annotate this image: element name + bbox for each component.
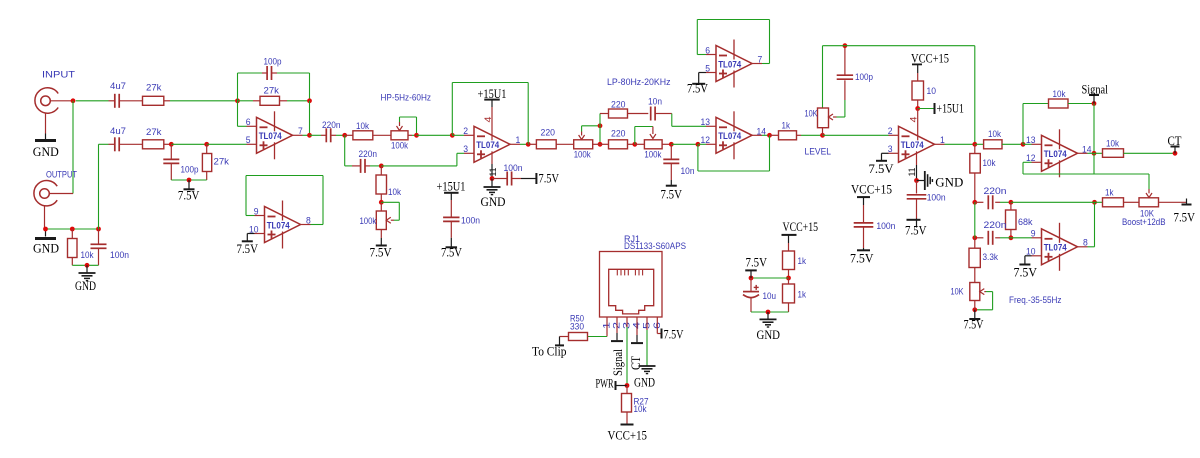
capacitor C3 100p feedback [237, 73, 239, 101]
pin 14 output [752, 134, 762, 136]
svg-text:GND: GND [33, 144, 59, 159]
svg-text:10k: 10k [81, 250, 94, 261]
power VCC+15 under R27 [621, 424, 634, 426]
svg-text:10k: 10k [1053, 89, 1066, 100]
wire BNC2 to bottom node [44, 206, 46, 229]
svg-text:Signal: Signal [611, 349, 625, 376]
junction feedback right [307, 98, 312, 103]
svg-text:7.5V: 7.5V [664, 327, 684, 342]
junction 68k top [1009, 200, 1014, 205]
svg-text:27k: 27k [214, 157, 230, 168]
wire ground rail [72, 264, 98, 266]
svg-text:4u7: 4u7 [110, 126, 126, 137]
capacitor C8 100n decouple2 [450, 200, 452, 217]
op-amp U1G TL074 [1042, 135, 1078, 171]
svg-text:100p: 100p [264, 57, 282, 68]
power 7.5V under C10 [670, 180, 672, 185]
potentiometer RV7 10K freq [970, 283, 980, 301]
svg-text:VCC+15: VCC+15 [851, 182, 892, 197]
svg-text:TL074: TL074 [1044, 149, 1067, 159]
op-amp U1C TL074 [474, 126, 510, 162]
pin 13 [706, 125, 716, 127]
svg-text:INPUT: INPUT [42, 70, 75, 81]
junction boost node [1092, 200, 1097, 205]
svg-text:220: 220 [541, 128, 556, 139]
junction U1F out node [972, 142, 977, 147]
port To Clip [559, 337, 561, 346]
pin 8 output [301, 224, 311, 226]
resistor R20 3.3k [974, 238, 976, 248]
svg-text:100n: 100n [876, 221, 895, 232]
power 7.5V right of RV6 [1159, 201, 1187, 203]
wire 220n left riser [974, 202, 976, 238]
pin 9 U1H [1032, 237, 1042, 239]
svg-text:+15U1: +15U1 [937, 101, 965, 116]
wire to U1C pin2 [417, 134, 453, 136]
RJ1 contacts [616, 269, 618, 275]
svg-text:1: 1 [940, 135, 945, 146]
junction pin12 node [696, 142, 701, 147]
resistor R14 10k series [975, 143, 984, 145]
svg-text:10k: 10k [1106, 139, 1119, 150]
pin 11 power [491, 151, 493, 164]
junction pin11 U1F [914, 178, 919, 183]
svg-text:+15U1: +15U1 [437, 179, 466, 194]
pin 5 [247, 143, 257, 145]
pin 4 wire to gnd bar [636, 317, 638, 335]
svg-text:VCC+15: VCC+15 [608, 428, 648, 443]
wire shunt bottom [171, 179, 206, 181]
svg-text:DS1133-S60APS: DS1133-S60APS [624, 241, 686, 252]
svg-text:CT: CT [1168, 133, 1182, 148]
svg-text:VCC+15: VCC+15 [911, 51, 949, 66]
svg-text:4: 4 [909, 117, 919, 123]
pin 9 [255, 215, 265, 217]
svg-text:68k: 68k [1018, 217, 1033, 228]
junction 100p top [843, 43, 848, 48]
port Signal [1093, 96, 1095, 104]
ground GND under divider [767, 312, 769, 319]
svg-text:LEVEL: LEVEL [805, 147, 832, 158]
resistor R18 1k boost [1095, 201, 1103, 203]
junction LP main a [598, 142, 603, 147]
svg-text:10n: 10n [648, 97, 662, 108]
svg-text:100n: 100n [110, 250, 129, 261]
junction HP input [342, 133, 347, 138]
svg-text:1k: 1k [1105, 188, 1114, 199]
svg-text:100k: 100k [644, 150, 661, 161]
svg-text:6: 6 [246, 117, 251, 128]
junction U1C out [526, 142, 531, 147]
svg-text:TL074: TL074 [718, 131, 741, 141]
capacitor C14 10u electrolytic [750, 278, 752, 292]
svg-text:5: 5 [246, 135, 251, 146]
junction LEVEL node [820, 133, 825, 138]
resistor R8 220 top [600, 113, 609, 115]
svg-text:330: 330 [570, 321, 584, 332]
svg-text:TL074: TL074 [267, 220, 290, 230]
ground GND under OUTPUT [45, 229, 47, 237]
svg-text:7.5V: 7.5V [539, 171, 560, 186]
svg-text:10: 10 [927, 86, 937, 97]
resistor R2 27k feedback [238, 100, 254, 102]
power 7.5V under RV2 [380, 230, 382, 239]
svg-text:TL074: TL074 [901, 140, 924, 150]
connector J1 INPUT BNC [35, 88, 58, 113]
potentiometer RV2 100k HP shunt [380, 202, 382, 211]
potentiometer RV1 100k HP [391, 131, 408, 140]
svg-text:11: 11 [907, 168, 917, 177]
power 7.5V under C13 [863, 248, 865, 250]
pin 5 wire to GND [646, 317, 648, 330]
connector J2 OUTPUT BNC [34, 181, 57, 206]
wire output net up to row2 [98, 144, 100, 229]
junction node A [235, 98, 240, 103]
pin 1 output U1F [935, 143, 945, 145]
wire divider bottom [751, 311, 789, 313]
ground GND earth bottom-left [86, 265, 88, 272]
svg-text:2: 2 [463, 126, 468, 137]
capacitor C6 220n HP shunt [344, 135, 346, 166]
junction LP out [669, 142, 674, 147]
svg-text:7.5V: 7.5V [441, 245, 462, 260]
wire LP riser [599, 114, 601, 145]
junction U1G out [1092, 151, 1097, 156]
svg-text:1k: 1k [798, 290, 807, 301]
pin 12 U1G [1032, 161, 1042, 163]
pin 13 U1G [1032, 143, 1042, 145]
capacitor C10 10n shunt [670, 144, 672, 159]
svg-text:7.5V: 7.5V [746, 255, 768, 270]
svg-text:10k: 10k [634, 404, 647, 415]
connector RJ1 body [600, 252, 663, 318]
wire row1 to U1A [170, 100, 238, 102]
svg-text:7.5V: 7.5V [850, 251, 874, 266]
svg-text:100k: 100k [391, 141, 408, 152]
svg-text:4: 4 [483, 117, 493, 123]
svg-text:CT: CT [629, 356, 643, 370]
capacitor C15 220n row1 [975, 201, 984, 203]
svg-text:Freq.-35-55Hz: Freq.-35-55Hz [1009, 295, 1062, 306]
pin 7 output [293, 134, 303, 136]
resistor R6 10k HP shunt [380, 166, 382, 175]
pin 11 power U1F [916, 151, 918, 165]
pin 6 U1E [706, 54, 716, 56]
junction RV7 bottom [972, 307, 977, 312]
ground GND under U1C [491, 179, 493, 187]
resistor 10k to ground [71, 229, 73, 239]
junction HP shunt [379, 164, 384, 169]
junction R11 bottom [915, 106, 920, 111]
junction dots bottom node [43, 227, 48, 232]
potentiometer RV6 10K boost [1139, 198, 1159, 207]
wire node A down to pin6 [237, 101, 239, 127]
power 7.5V at U1E pin5 [699, 72, 706, 74]
wiper RV7 [980, 289, 985, 295]
junction PWR node [625, 383, 630, 388]
pin 2 [464, 134, 474, 136]
svg-text:8: 8 [1083, 238, 1088, 249]
svg-text:7.5V: 7.5V [869, 161, 895, 176]
resistor R1 27k row1 [143, 96, 164, 105]
svg-text:220: 220 [611, 100, 626, 111]
svg-text:27k: 27k [146, 83, 162, 94]
pin 6 [247, 125, 257, 127]
svg-text:7.5V: 7.5V [964, 317, 984, 332]
op-amp U1E TL074 [716, 46, 752, 82]
junction LP main b [632, 142, 637, 147]
wire LEVEL to U1F pin2 [823, 134, 889, 136]
power 7.5V under C8 [450, 238, 452, 247]
capacitor C2 4u7 row2 [99, 143, 109, 145]
capacitor C13 100n decouple3 [863, 205, 865, 223]
resistor R27 10k [626, 386, 628, 394]
junction Signal node [1092, 101, 1097, 106]
pin 1 wire to R50 [606, 317, 608, 337]
junction freq node a [972, 200, 977, 205]
wire input junction down to OUTPUT pin [72, 101, 74, 194]
pin 4 power U1F [917, 109, 919, 141]
svg-text:To Clip: To Clip [532, 344, 567, 359]
svg-text:10k: 10k [388, 187, 401, 198]
svg-text:Signal: Signal [1082, 82, 1109, 97]
capacitor C7 100n decouple U1C [492, 178, 507, 180]
svg-text:220n: 220n [984, 186, 1007, 197]
op-amp U1D TL074 [716, 117, 752, 153]
junction RV1 out [414, 133, 419, 138]
svg-text:PWR: PWR [596, 376, 614, 391]
wire feedback to output [309, 101, 311, 136]
svg-text:3: 3 [463, 144, 468, 155]
svg-text:10u: 10u [763, 291, 777, 302]
resistor R5 10k HP [345, 134, 353, 136]
wire U1B feedback loop [245, 176, 247, 216]
pin 1 output [510, 143, 520, 145]
resistor R15 10k shunt [974, 144, 976, 153]
resistor R16 10k feedback [1022, 104, 1024, 145]
svg-text:7.5V: 7.5V [661, 187, 683, 202]
svg-text:LP-80Hz-20KHz: LP-80Hz-20KHz [607, 77, 671, 88]
svg-text:GND: GND [33, 241, 59, 256]
resistor R3 27k row2 [143, 140, 164, 149]
op-amp U1A TL074 [257, 117, 293, 153]
junction node input [71, 98, 76, 103]
svg-text:7.5V: 7.5V [178, 188, 200, 203]
wire pin12 loop [1023, 161, 1032, 163]
svg-text:100k: 100k [574, 150, 591, 161]
junction pin11 [490, 176, 495, 181]
svg-text:10n: 10n [681, 166, 695, 177]
svg-text:27k: 27k [146, 127, 162, 138]
pin 6 wire to 7.5V [656, 317, 658, 334]
junction row2 a [169, 142, 174, 147]
op-amp U1F TL074 [899, 126, 935, 162]
svg-text:9: 9 [1031, 229, 1036, 240]
wire Signal to out14 [1093, 104, 1095, 154]
power 7.5V under C12 [916, 219, 918, 228]
svg-text:TL074: TL074 [718, 59, 741, 69]
wire LP jog to wiper RV4 [634, 127, 636, 145]
svg-text:7.5V: 7.5V [370, 245, 393, 260]
svg-text:GND: GND [634, 375, 655, 390]
resistor R9 220 main [600, 143, 609, 145]
svg-text:7.5V: 7.5V [905, 223, 927, 238]
svg-text:220n: 220n [359, 149, 378, 160]
wire HP shunt to pin3 [381, 165, 457, 167]
svg-text:10K: 10K [805, 109, 819, 120]
wire row2 to pin9 [1011, 237, 1032, 239]
capacitor C5 220n series [310, 134, 322, 136]
junction divider mid [786, 276, 791, 281]
svg-text:220n: 220n [322, 120, 341, 131]
svg-text:10K: 10K [951, 287, 965, 298]
svg-text:100n: 100n [927, 193, 946, 204]
svg-text:7.5V: 7.5V [1014, 265, 1038, 280]
wire U1D feedback loop [697, 144, 699, 171]
svg-text:GND: GND [75, 278, 96, 293]
svg-text:100n: 100n [461, 216, 480, 227]
wire out14 down to loop [1093, 153, 1095, 174]
wiper RV3 [581, 132, 583, 136]
svg-text:10k: 10k [356, 121, 369, 132]
power 7.5V right of C7 [521, 178, 536, 180]
pin 5 U1E [706, 72, 716, 74]
junction pin13 node [1021, 142, 1026, 147]
power 7.5V at U1F pin3 [882, 152, 889, 154]
svg-text:Boost+12dB: Boost+12dB [1122, 217, 1166, 228]
svg-text:7: 7 [298, 126, 303, 137]
resistor R7 220 after U1C [528, 143, 536, 145]
resistor R11 10 [917, 73, 919, 81]
svg-text:100p: 100p [181, 165, 199, 176]
svg-text:100k: 100k [360, 216, 377, 227]
svg-text:1: 1 [516, 135, 521, 146]
svg-text:7.5V: 7.5V [237, 241, 259, 256]
resistor R19 68k [1010, 202, 1012, 210]
svg-text:13: 13 [1026, 135, 1036, 146]
power 7.5V at U1H pin10 [1025, 255, 1032, 257]
op-amp U1H TL074 [1042, 229, 1078, 265]
wire U1C feedback loop [527, 83, 529, 145]
svg-text:10k: 10k [983, 158, 996, 169]
svg-text:100n: 100n [504, 163, 523, 174]
junction LP wiper node [598, 123, 603, 128]
svg-text:GND: GND [757, 327, 781, 342]
wire divider to cap [751, 277, 789, 279]
svg-text:TL074: TL074 [476, 140, 499, 150]
pin 10 [255, 233, 265, 235]
capacitor C9 10n top [650, 107, 652, 121]
junction CT node [1173, 151, 1178, 156]
ground GND under pin5 [639, 365, 656, 367]
junction row2 left [972, 235, 977, 240]
svg-text:VCC+15: VCC+15 [783, 219, 819, 234]
svg-text:7: 7 [758, 54, 763, 65]
svg-text:11: 11 [488, 168, 498, 177]
resistor R4 27k shunt [206, 144, 208, 153]
svg-text:1k: 1k [798, 256, 807, 267]
resistor R10 1k [770, 134, 779, 136]
capacitor C12 100n under U1F [916, 181, 918, 194]
wiper RV5 [829, 114, 834, 120]
svg-text:13: 13 [701, 117, 711, 128]
ground GND under INPUT [35, 139, 56, 142]
wiper RV6 [1148, 189, 1150, 193]
wire top feedback line [823, 45, 975, 47]
junction U1A output [307, 133, 312, 138]
power 7.5V at pin10 [247, 233, 254, 235]
ground GND right of U1F [917, 180, 925, 182]
pin 3 U1F [889, 152, 899, 154]
pin 3 [464, 152, 474, 154]
port CT [1174, 147, 1176, 153]
svg-text:27k: 27k [264, 86, 280, 97]
resistor R17 10k to CT [1094, 152, 1103, 154]
svg-text:GND: GND [935, 175, 963, 190]
svg-text:220: 220 [611, 129, 626, 140]
wire bottom node [46, 228, 99, 230]
svg-text:GND: GND [481, 194, 506, 209]
junction row2 b [204, 142, 209, 147]
pin 8 output U1H [1078, 246, 1088, 248]
svg-text:2: 2 [888, 126, 893, 137]
wire input row1 [76, 100, 109, 102]
potentiometer RV4 100k LP2 [635, 143, 645, 145]
svg-text:4u7: 4u7 [110, 81, 126, 92]
wire top to pin13 [671, 114, 673, 127]
svg-text:TL074: TL074 [1044, 243, 1067, 253]
svg-text:7.5V: 7.5V [1174, 210, 1196, 225]
capacitor 100n to ground [98, 229, 100, 244]
pin 7 output U1E [752, 63, 762, 65]
capacitor C1 4u7 row1 [109, 100, 115, 102]
pin 14 output U1G [1078, 152, 1088, 154]
pin 4 power [491, 107, 493, 140]
capacitor C4 100p shunt [170, 144, 172, 159]
wiper RV1 [399, 122, 401, 126]
svg-text:TL074: TL074 [259, 131, 282, 141]
svg-text:1k: 1k [782, 121, 791, 132]
power +15U1 port right [918, 108, 935, 110]
power 7.5V under RV7 [974, 310, 976, 318]
pin 2 wire to gnd bar [616, 317, 618, 333]
junction U1D out [767, 133, 772, 138]
power 7.5V shunt [188, 180, 190, 189]
capacitor C11 100p LEVEL [844, 80, 846, 100]
junction U1C pin2 node [450, 133, 455, 138]
svg-text:3.3k: 3.3k [983, 252, 999, 263]
op-amp U1B TL074 [265, 207, 301, 243]
wire out8 riser [1094, 202, 1096, 247]
wire U1E feedback loop [696, 20, 698, 55]
svg-text:100p: 100p [855, 72, 873, 83]
capacitor C16 220n row2 [975, 237, 984, 239]
svg-text:10k: 10k [988, 129, 1001, 140]
wire BNC1 to ground [45, 114, 47, 134]
svg-text:OUTPUT: OUTPUT [46, 170, 77, 181]
resistor R13 1k lower [788, 278, 790, 284]
junction 68k bottom [1009, 235, 1014, 240]
pin 3 wire Signal [626, 317, 628, 327]
potentiometer RV5 10K LEVEL [822, 46, 824, 108]
svg-text:7.5V: 7.5V [687, 81, 708, 96]
svg-text:8: 8 [306, 215, 311, 226]
pin 10 U1H [1032, 255, 1042, 257]
resistor R12 1k upper [788, 243, 790, 251]
pin 12 [706, 143, 716, 145]
wiper RV2 [386, 217, 391, 223]
potentiometer RV3 100k LP1 [574, 140, 593, 149]
